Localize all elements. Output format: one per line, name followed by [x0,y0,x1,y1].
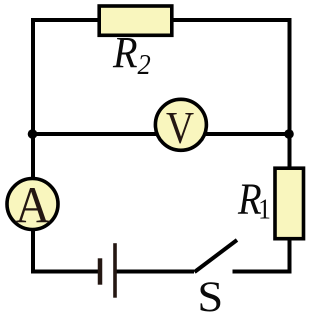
switch S blade [195,240,238,272]
svg-text:S: S [197,272,223,314]
wire left vertical lower (ammeter to bottom corner) [31,229,35,274]
ammeter A [7,179,58,230]
wire top-right segment (top wire, right of R2) [172,18,292,22]
resistor R1 [275,168,304,239]
node right junction dot [284,129,294,139]
svg-text:V: V [166,103,194,154]
wire middle left (junction to voltmeter) [33,132,156,136]
wire middle right (voltmeter to junction) [206,132,290,136]
voltmeter V [155,99,206,150]
wire right vertical lower (R1 to bottom corner) [288,239,292,274]
wire right vertical upper (top corner to R1) [288,18,292,168]
battery negative plate (short) [98,258,103,284]
wire top-left segment (top wire, left of R2) [31,18,99,22]
wire bottom middle (battery to switch) [116,270,194,274]
battery positive plate (long) [113,243,117,298]
node left junction dot [28,129,38,139]
svg-text:A: A [15,176,50,234]
wire left vertical middle (junction to ammeter) [31,134,35,179]
wire bottom left (corner to battery) [31,270,98,274]
resistor R2 [99,6,172,35]
wire bottom right (switch to corner) [233,270,292,274]
wire left vertical upper (top corner to junction) [31,18,35,136]
